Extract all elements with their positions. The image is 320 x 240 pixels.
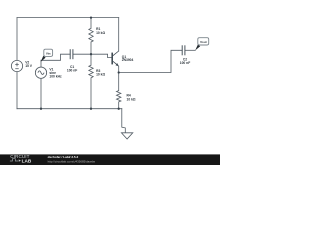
label V2 15 V xyxy=(25,60,33,68)
wire top rail xyxy=(17,17,119,19)
svg-text:15 V: 15 V xyxy=(25,64,33,68)
wire V1 bottom lead xyxy=(40,78,42,108)
label R4 10 kOhm xyxy=(127,94,136,102)
label C1 100 nF xyxy=(67,65,77,73)
node flag Vout xyxy=(195,38,209,51)
capacitor C2 xyxy=(182,45,185,55)
footer bar xyxy=(0,154,220,165)
wire R4 top lead xyxy=(118,73,120,91)
wire C2 to Vout xyxy=(185,49,195,51)
wire R1 top lead xyxy=(90,18,92,29)
node V1 bottom xyxy=(40,108,42,110)
resistor R3 xyxy=(89,65,93,78)
wire V1 top lead xyxy=(40,60,42,67)
wire bottom rail xyxy=(17,108,122,110)
wire R3 top lead xyxy=(90,54,92,65)
svg-text:100 nF: 100 nF xyxy=(67,68,77,72)
voltage source V1 xyxy=(35,67,46,78)
resistor R1 xyxy=(89,28,93,42)
svg-text:http://circuitlab.com/c/435685: http://circuitlab.com/c/435685/dawdw xyxy=(48,160,96,164)
svg-text:Vin: Vin xyxy=(46,51,51,55)
node flag Vin xyxy=(41,49,53,62)
svg-text:Vout: Vout xyxy=(200,40,207,44)
voltage source V2 xyxy=(11,60,22,71)
capacitor C1 xyxy=(70,49,73,59)
wire R3 bottom lead xyxy=(90,78,92,109)
logo waveform xyxy=(10,159,18,161)
wire R4 bottom lead xyxy=(118,102,120,109)
svg-text:2N3904: 2N3904 xyxy=(122,58,134,62)
node R4 bottom xyxy=(118,108,120,110)
node R3 bottom xyxy=(90,108,92,110)
wire ground drop xyxy=(122,109,126,133)
node R1 top xyxy=(90,16,92,18)
label C2 100 nF xyxy=(180,57,190,65)
emitter arrow of Q1 xyxy=(116,63,119,66)
svg-text:10 kΩ: 10 kΩ xyxy=(127,97,136,101)
transistor Q1 xyxy=(112,51,119,65)
wire collector xyxy=(118,18,120,51)
logo arrow xyxy=(19,159,21,161)
svg-text:100 kHz: 100 kHz xyxy=(49,75,62,79)
label Q1 2N3904 xyxy=(122,55,134,62)
label V1 sine 100 kHz xyxy=(49,67,62,78)
label R1 10 kOhm xyxy=(96,27,105,35)
svg-text:LAB: LAB xyxy=(22,158,32,163)
svg-text:100 nF: 100 nF xyxy=(180,61,190,65)
node base xyxy=(90,53,92,55)
wire V2 bottom lead xyxy=(16,72,18,109)
label R3 10 kOhm xyxy=(96,69,105,77)
svg-text:dschofer / Lab2 2.5.2: dschofer / Lab2 2.5.2 xyxy=(48,155,79,159)
wire V1 to C1 xyxy=(41,54,70,60)
wire emitter to C2 xyxy=(119,50,183,72)
svg-text:10 kΩ: 10 kΩ xyxy=(96,31,105,35)
resistor R4 xyxy=(117,91,121,102)
wire emitter lead xyxy=(118,66,120,72)
wire C1 to base xyxy=(73,54,112,57)
ground xyxy=(121,133,132,139)
svg-text:10 kΩ: 10 kΩ xyxy=(96,73,105,77)
wire V2 top lead xyxy=(16,18,18,61)
wire R1 bottom lead xyxy=(90,42,92,54)
node emitter xyxy=(118,71,120,73)
junction dots xyxy=(40,16,120,109)
